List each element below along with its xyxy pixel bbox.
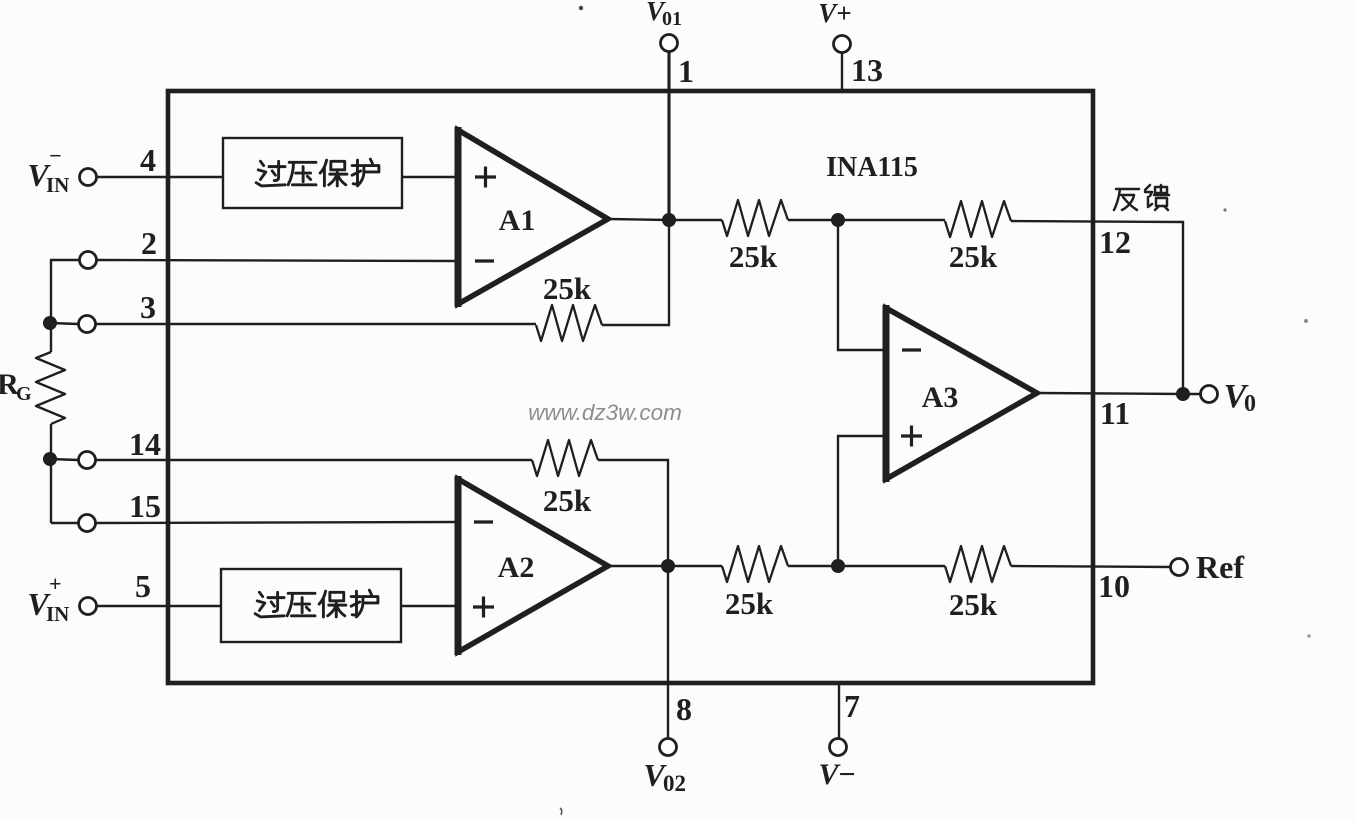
svg-text:+: + <box>49 571 62 596</box>
resistor 25k A2 feedback <box>532 440 598 476</box>
label 过压保护 (box 2) <box>255 590 378 617</box>
wire R1 to node C <box>788 219 838 221</box>
svg-text:01: 01 <box>662 8 682 30</box>
wire node A to 25k R1 <box>669 219 722 221</box>
label VIN+ <box>27 571 69 626</box>
scan speck right 2 <box>1304 319 1308 323</box>
pin number 4 <box>140 142 156 178</box>
pin number 2 <box>141 225 157 261</box>
svg-text:25k: 25k <box>725 586 774 621</box>
svg-text:15: 15 <box>129 488 161 524</box>
wire node C to 25k R2 <box>838 219 945 221</box>
svg-text:www.dz3w.com: www.dz3w.com <box>528 400 682 425</box>
terminal pin 15 <box>79 515 96 532</box>
resistor 25k A1 feedback <box>536 305 602 341</box>
wire 25k to A1 output branch <box>602 220 669 325</box>
op-amp A3 <box>886 305 1037 482</box>
pin number 5 <box>135 568 151 604</box>
svg-text:25k: 25k <box>949 587 998 622</box>
wire A3 noninverting input from node D <box>838 436 886 566</box>
value label 25k (R2) <box>949 239 998 274</box>
wire pin2 to A1 inverting input <box>97 260 458 261</box>
overvoltage protection box 2 <box>221 569 401 642</box>
node junction RG bottom <box>43 452 57 466</box>
wire A3 output to V0 <box>1037 393 1183 394</box>
wire pin15 to A2 inverting input <box>96 522 458 523</box>
svg-text:8: 8 <box>676 691 692 727</box>
svg-text:13: 13 <box>851 52 883 88</box>
resistor 25k R3 (bottom left) <box>722 546 788 582</box>
label 反馈 <box>1114 185 1169 210</box>
scan speck right 3 <box>1307 634 1311 638</box>
wire node B down to V02 terminal (pin 8) <box>667 566 669 738</box>
pin number 14 <box>129 426 161 462</box>
wire protection box 1 to A1 + <box>402 176 458 178</box>
svg-text:V−: V− <box>818 758 855 791</box>
wire node B to 25k R3 <box>668 565 722 567</box>
terminal pin 3 <box>79 316 96 333</box>
svg-text:10: 10 <box>1098 568 1130 604</box>
A3 minus sign <box>902 348 921 351</box>
svg-text:G: G <box>16 383 32 405</box>
terminal VIN+ (pin 5) <box>80 598 97 615</box>
svg-text:14: 14 <box>129 426 161 462</box>
wire RG rail lower <box>50 424 52 523</box>
terminal pin 14 <box>79 452 96 469</box>
overvoltage protection box 1 <box>223 138 402 208</box>
node junction RG top <box>43 316 57 330</box>
wire pin14 stub to RG rail junction <box>50 459 78 460</box>
wire pin15 stub to RG rail <box>51 522 78 524</box>
svg-text:A2: A2 <box>498 551 535 584</box>
wire protection box 2 to A2 + <box>401 605 458 607</box>
svg-text:02: 02 <box>663 771 686 796</box>
wire node C to A3 inverting input <box>838 220 886 350</box>
pin number 1 <box>678 53 694 89</box>
label A3 <box>922 381 959 414</box>
terminal pin 2 <box>80 252 97 269</box>
label Ref <box>1196 549 1244 585</box>
svg-text:IN: IN <box>46 602 69 626</box>
scan speck top <box>579 6 583 10</box>
svg-text:7: 7 <box>844 688 860 724</box>
svg-text:Ref: Ref <box>1196 549 1244 585</box>
wire pin3 stub to RG rail junction <box>50 323 78 324</box>
A1 plus sign <box>475 167 496 188</box>
terminal V02 (pin 8) <box>660 739 677 756</box>
svg-text:INA115: INA115 <box>826 152 918 183</box>
resistor 25k R1 (top left) <box>722 200 788 236</box>
pin number 7 <box>844 688 860 724</box>
op-amp A2 <box>458 476 608 655</box>
svg-text:−: − <box>49 143 62 168</box>
svg-text:25k: 25k <box>543 271 592 306</box>
wire 25k to A2 output branch <box>598 460 668 566</box>
wire node D to 25k R4 <box>838 565 945 567</box>
pin number 13 <box>851 52 883 88</box>
node A (A1 output) <box>662 213 676 227</box>
A3 plus sign <box>901 426 922 447</box>
wire pin1 vertical V01 to node A <box>667 52 670 220</box>
label 过压保护 (box 1) <box>256 159 379 186</box>
pin number 12 <box>1099 224 1131 260</box>
wire R3 to node D <box>788 565 838 567</box>
label V- <box>818 758 855 791</box>
resistor 25k R4 (bottom right) <box>945 546 1011 582</box>
value label 25k (R4) <box>949 587 998 622</box>
svg-text:25k: 25k <box>543 483 592 518</box>
wire pin14 feedback line to 25k <box>96 459 532 461</box>
terminal V+ (pin 13) <box>834 36 851 53</box>
A2 minus sign <box>474 520 493 523</box>
svg-text:A3: A3 <box>922 381 959 414</box>
value label 25k (R3) <box>725 586 774 621</box>
A2 plus sign <box>473 597 494 618</box>
svg-text:2: 2 <box>141 225 157 261</box>
value label 25k (A2 feedback) <box>543 483 592 518</box>
svg-text:A1: A1 <box>499 204 536 237</box>
label V02 <box>643 757 686 796</box>
svg-text:0: 0 <box>1244 391 1256 417</box>
label RG <box>0 368 32 405</box>
svg-text:IN: IN <box>46 173 69 197</box>
resistor RG <box>36 352 65 424</box>
node C (top middle) <box>831 213 845 227</box>
wire A1 output to node A <box>608 219 669 220</box>
A1 minus sign <box>475 259 494 262</box>
wire VIN+ to protection box 2 <box>97 605 221 607</box>
resistor 25k R2 (top right) <box>945 201 1011 237</box>
terminal V- (pin 7) <box>830 739 847 756</box>
svg-text:1: 1 <box>678 53 694 89</box>
wire A2 output to node B <box>608 565 668 567</box>
op-amp A1 <box>458 127 608 307</box>
label A2 <box>498 551 535 584</box>
stray mark <box>560 808 562 815</box>
terminal Ref (pin 10) <box>1171 559 1188 576</box>
pin number 10 <box>1098 568 1130 604</box>
terminal VIN- (pin 4) <box>80 169 97 186</box>
wire R4 to Ref terminal <box>1011 566 1170 567</box>
pin number 3 <box>140 289 156 325</box>
svg-text:12: 12 <box>1099 224 1131 260</box>
label V+ <box>818 0 851 28</box>
watermark www.dz3w.com <box>528 400 682 425</box>
label A1 <box>499 204 536 237</box>
value label 25k (R1) <box>729 239 778 274</box>
wire node E to V0 terminal <box>1183 393 1200 395</box>
svg-text:4: 4 <box>140 142 156 178</box>
IC boundary box INA115 <box>168 91 1093 683</box>
svg-text:25k: 25k <box>949 239 998 274</box>
scan speck right 1 <box>1223 208 1226 211</box>
pin number 8 <box>676 691 692 727</box>
wire pin13 vertical V+ to box <box>841 53 843 92</box>
label VIN- <box>27 143 69 197</box>
label V01 <box>646 0 682 30</box>
svg-text:5: 5 <box>135 568 151 604</box>
pin number 15 <box>129 488 161 524</box>
wire pin2 stub to RG rail <box>51 260 79 352</box>
svg-text:3: 3 <box>140 289 156 325</box>
node D (bottom middle) <box>831 559 845 573</box>
terminal V01 (pin 1) <box>661 35 678 52</box>
svg-text:25k: 25k <box>729 239 778 274</box>
label INA115 <box>826 152 918 183</box>
node E (output junction) <box>1176 387 1190 401</box>
pin number 11 <box>1100 395 1130 431</box>
wire pin 7 box to V- terminal <box>838 685 840 738</box>
wire pin3 feedback line to 25k <box>96 323 536 325</box>
label V0 <box>1224 378 1256 417</box>
wire VIN- to protection box 1 <box>97 176 223 178</box>
svg-text:11: 11 <box>1100 395 1130 431</box>
value label 25k (A1 feedback) <box>543 271 592 306</box>
svg-text:V+: V+ <box>818 0 851 28</box>
terminal V0 (pin 11) <box>1201 386 1218 403</box>
wire R2 to feedback corner <box>1011 221 1183 394</box>
node B (A2 output) <box>661 559 675 573</box>
